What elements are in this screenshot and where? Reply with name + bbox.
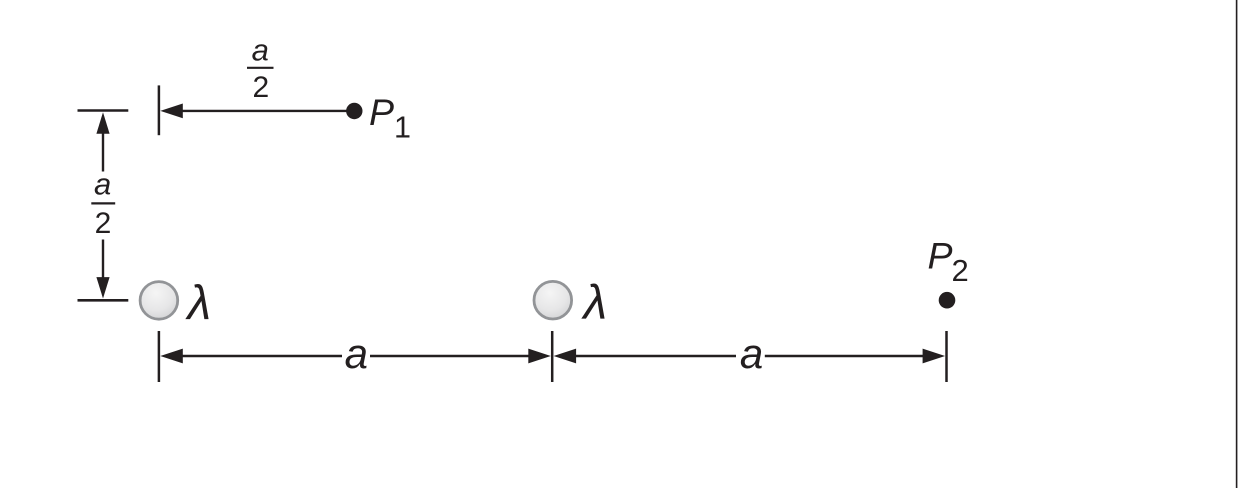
svg-text:a: a — [252, 33, 269, 68]
svg-text:1: 1 — [394, 110, 411, 144]
svg-text:a: a — [345, 330, 368, 377]
svg-text:2: 2 — [252, 71, 269, 104]
svg-text:a: a — [740, 330, 763, 377]
svg-text:λ: λ — [581, 276, 608, 329]
svg-text:2: 2 — [95, 207, 112, 240]
svg-text:P: P — [928, 234, 953, 276]
svg-text:P: P — [369, 91, 394, 133]
svg-text:a: a — [94, 167, 111, 202]
svg-text:2: 2 — [952, 253, 969, 288]
svg-text:λ: λ — [185, 277, 212, 330]
